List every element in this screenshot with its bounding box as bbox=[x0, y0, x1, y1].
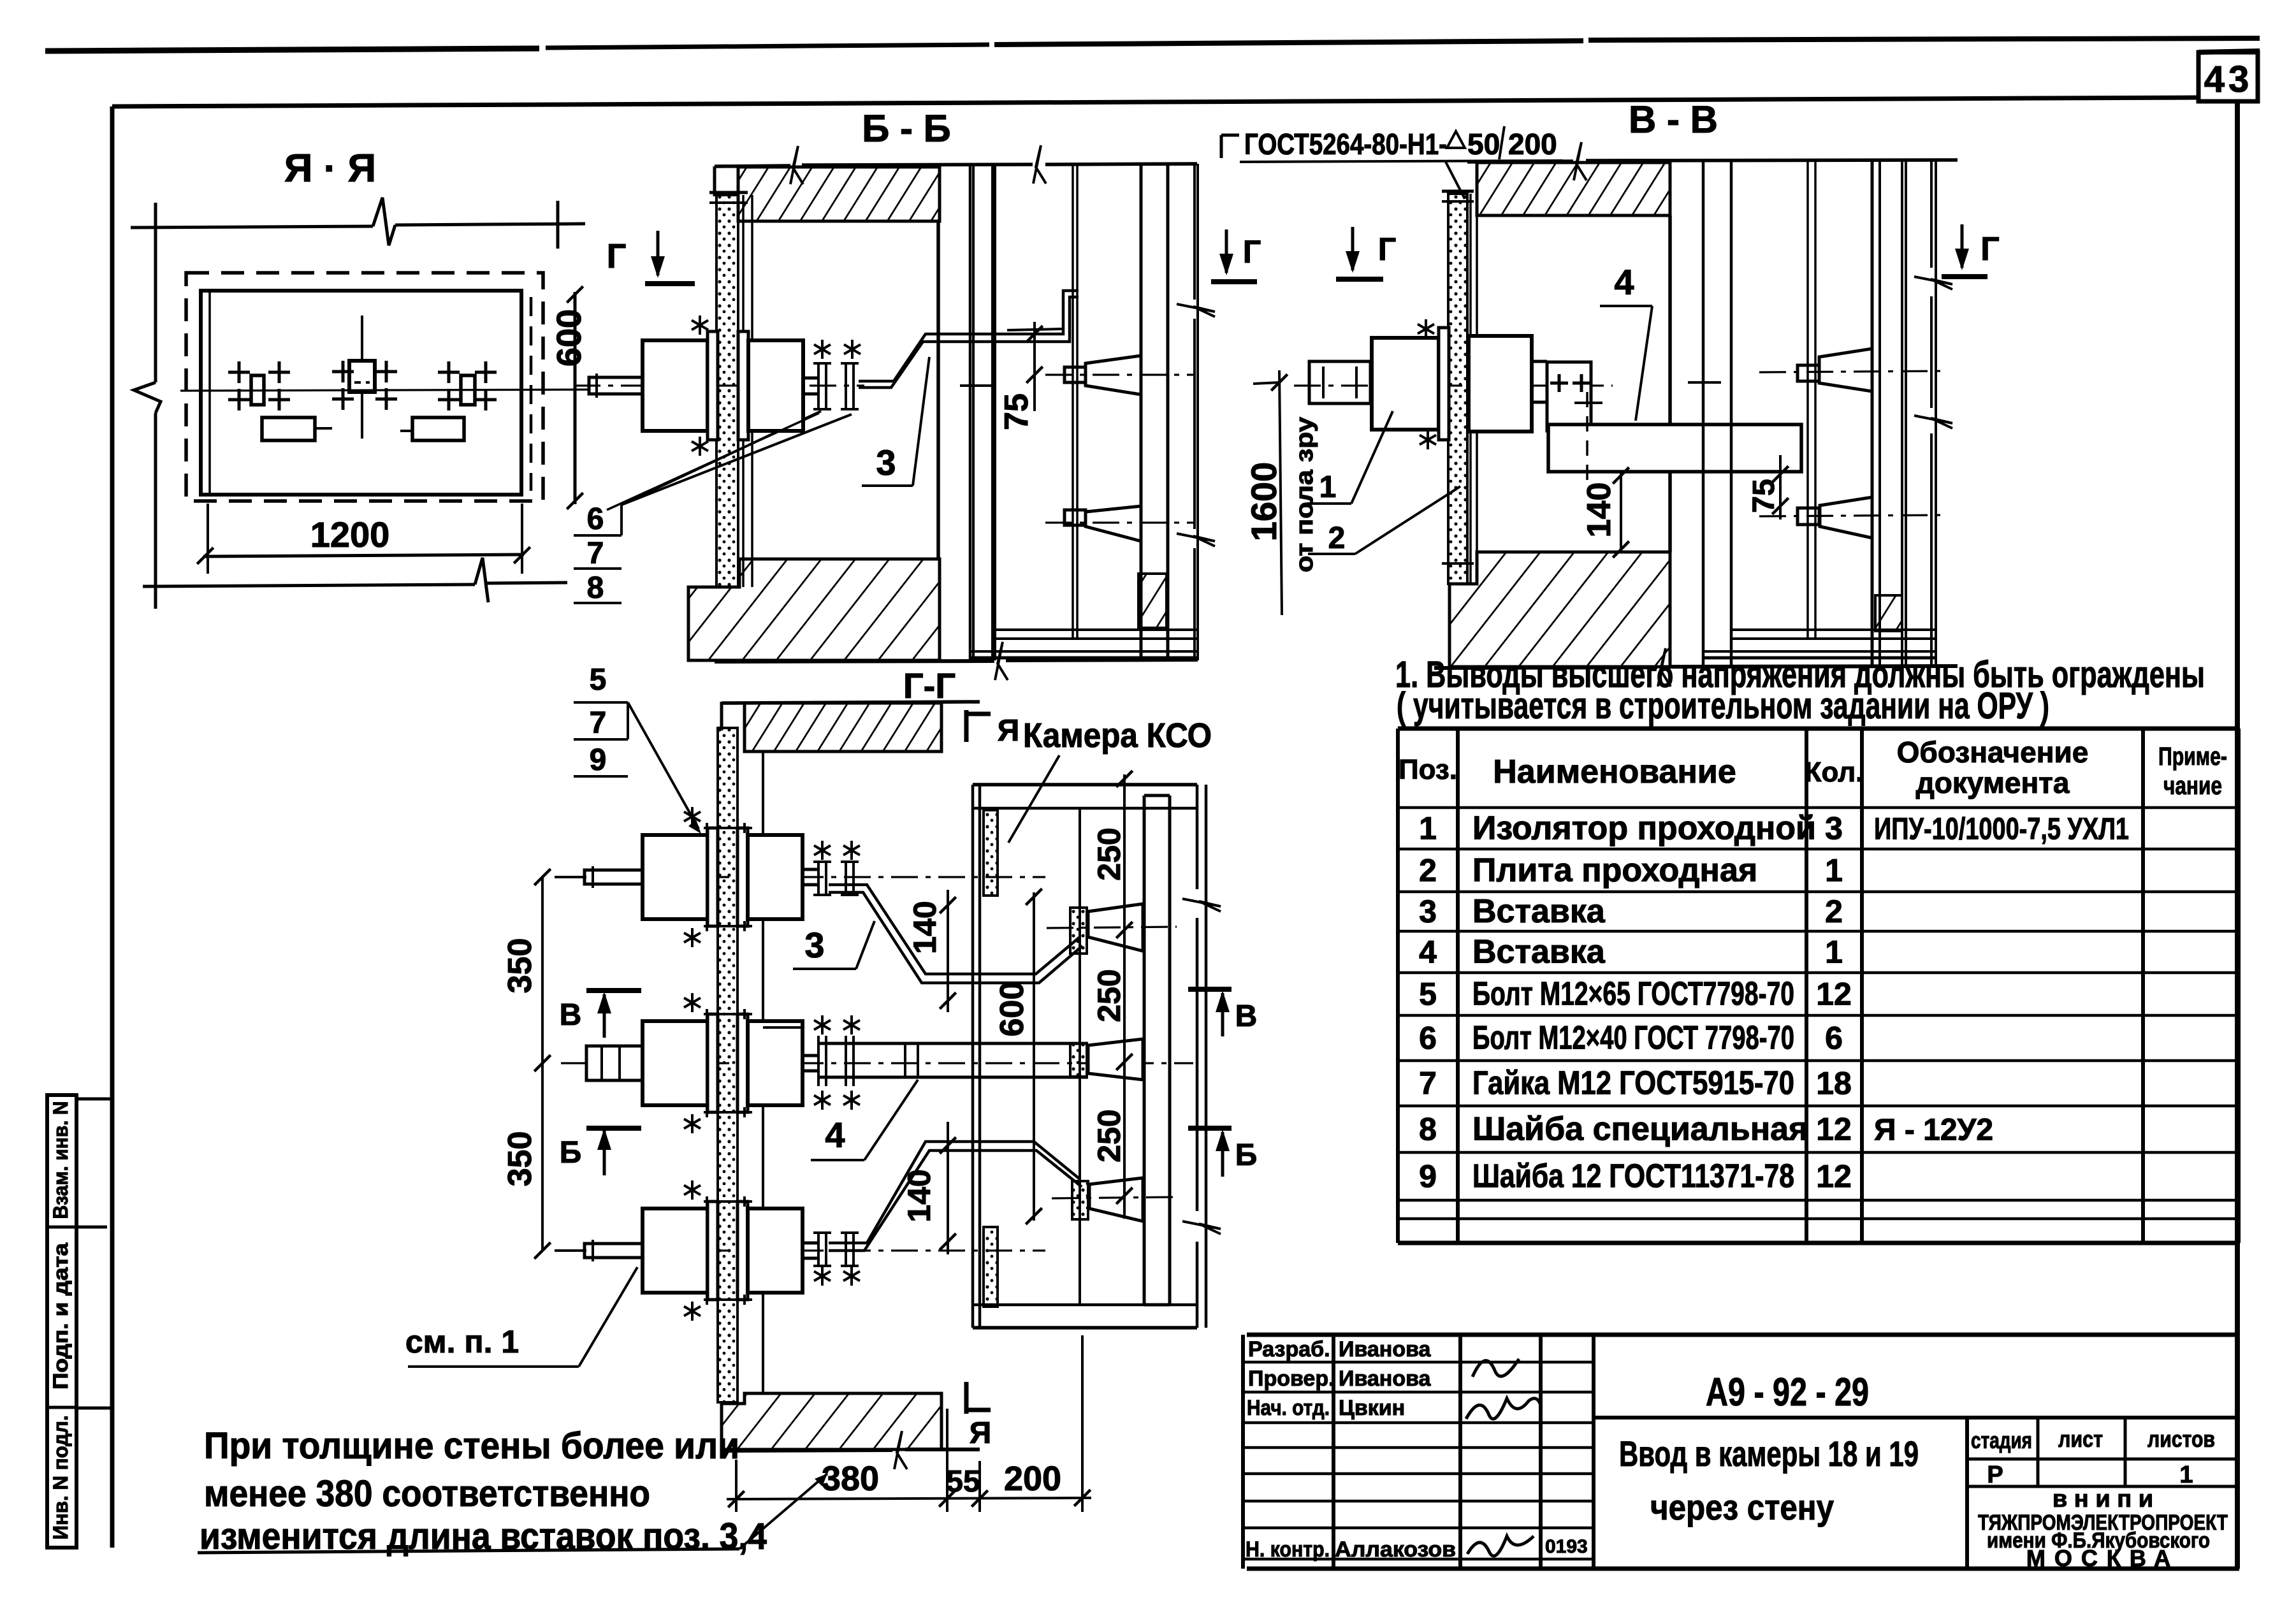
section label Г-Г bbox=[903, 665, 955, 706]
svg-text:ИПУ-10/1000-7,5 УХЛ1: ИПУ-10/1000-7,5 УХЛ1 bbox=[1874, 813, 2129, 846]
Б-Б label 3 with leader bbox=[862, 357, 929, 486]
svg-text:Я: Я bbox=[998, 714, 1020, 748]
svg-text:75: 75 bbox=[1747, 479, 1781, 512]
Б-Б room wall face bbox=[743, 195, 938, 587]
Г-Г dim 140 bottom bbox=[901, 1122, 956, 1254]
Г-Г top conductor item 3 bbox=[813, 841, 1082, 983]
svg-text:Болт М12×65 ГОСТ7798-70: Болт М12×65 ГОСТ7798-70 bbox=[1472, 976, 1794, 1013]
Г-Г marks В Б left bbox=[560, 991, 641, 1175]
Я-Я left angle bracket bbox=[228, 361, 332, 440]
svg-text:75: 75 bbox=[998, 393, 1035, 430]
В-В wall top hatched bbox=[1477, 163, 1670, 215]
svg-text:см. п. 1: см. п. 1 bbox=[405, 1324, 519, 1360]
Г-Г support insulator middle bbox=[1070, 1039, 1143, 1080]
svg-text:листов: листов bbox=[2147, 1426, 2215, 1452]
Г-Г dim 140 top bbox=[907, 890, 956, 1012]
В-В item labels 1 2 bbox=[1307, 411, 1460, 555]
Г-Г bushing bottom item 1 bbox=[585, 1180, 818, 1321]
Б-Б passing plate item 2 bbox=[709, 192, 748, 587]
svg-text:1: 1 bbox=[1825, 934, 1843, 970]
Я-Я dimension 1200 bbox=[143, 504, 567, 602]
Г-Г bottom dims 380 55 200 bbox=[727, 1335, 1091, 1512]
note line 2 bbox=[1397, 685, 2049, 727]
Г-Г support insulator bottom bbox=[1052, 1178, 1177, 1221]
svg-text:12: 12 bbox=[1816, 1112, 1852, 1147]
svg-text:Поз.: Поз. bbox=[1399, 754, 1457, 785]
section marks Г right pair bbox=[1211, 227, 1396, 282]
В-В support insulator bottom bbox=[1759, 497, 1948, 538]
svg-text:Б - Б: Б - Б bbox=[862, 107, 951, 150]
svg-text:Цвкин: Цвкин bbox=[1339, 1396, 1405, 1420]
svg-text:0193: 0193 bbox=[1545, 1536, 1588, 1557]
svg-text:3: 3 bbox=[804, 925, 824, 965]
section label В-В bbox=[1629, 98, 1718, 141]
Г-Г wall bottom hatched bbox=[722, 1393, 980, 1469]
svg-text:200: 200 bbox=[1508, 127, 1557, 161]
Я-Я overall top dimension bbox=[131, 198, 585, 250]
Б-Б support insulator bottom bbox=[1045, 506, 1193, 541]
svg-text:9: 9 bbox=[1419, 1159, 1437, 1194]
sheet top scan line bbox=[45, 38, 2260, 51]
svg-text:3: 3 bbox=[1419, 894, 1437, 929]
svg-text:4: 4 bbox=[825, 1115, 845, 1155]
svg-text:8: 8 bbox=[1419, 1112, 1437, 1147]
svg-text:12: 12 bbox=[1816, 976, 1852, 1012]
svg-text:4: 4 bbox=[1419, 934, 1437, 970]
svg-text:3: 3 bbox=[876, 442, 896, 483]
svg-text:от пола зру: от пола зру bbox=[1291, 417, 1318, 572]
svg-text:140: 140 bbox=[901, 1169, 937, 1222]
svg-text:документа: документа bbox=[1916, 766, 2070, 799]
Б-Б wall bottom hatched bbox=[688, 559, 940, 660]
parts table header bbox=[1399, 736, 2227, 800]
svg-text:Провер.: Провер. bbox=[1248, 1367, 1335, 1391]
svg-text:250: 250 bbox=[1091, 1109, 1127, 1162]
svg-text:8: 8 bbox=[587, 571, 604, 605]
Г-Г marks В Б right bbox=[1188, 989, 1257, 1177]
svg-text:В: В bbox=[560, 998, 582, 1032]
Г-Г label 4 bbox=[811, 1080, 918, 1160]
svg-text:4: 4 bbox=[1614, 262, 1634, 302]
svg-text:Б: Б bbox=[1235, 1138, 1258, 1172]
left margin strip bbox=[47, 1095, 112, 1548]
svg-text:Плита проходная: Плита проходная bbox=[1472, 852, 1757, 889]
Б-Б leader to bolt group bbox=[607, 413, 819, 510]
svg-text:При толщине стены более или: При толщине стены более или bbox=[204, 1425, 739, 1467]
svg-text:200: 200 bbox=[1004, 1460, 1061, 1498]
Я-Я overall left dimension bbox=[134, 228, 161, 609]
В-В cabinet floor bbox=[1703, 630, 1936, 658]
svg-text:1200: 1200 bbox=[310, 514, 390, 555]
svg-text:Шайба специальная: Шайба специальная bbox=[1472, 1111, 1808, 1148]
svg-text:МОСКВА: МОСКВА bbox=[2026, 1545, 2179, 1571]
svg-text:стадия: стадия bbox=[1971, 1427, 2032, 1453]
svg-text:250: 250 bbox=[1091, 827, 1127, 880]
В-В base angle hatched bbox=[1875, 595, 1902, 631]
svg-text:140: 140 bbox=[907, 901, 943, 954]
svg-text:2: 2 bbox=[1825, 894, 1843, 929]
svg-text:Нач. отд.: Нач. отд. bbox=[1247, 1396, 1330, 1420]
svg-text:( учитывается в строительном з: ( учитывается в строительном задании на … bbox=[1397, 685, 2049, 727]
title block stamp grid bbox=[1243, 1335, 2239, 1569]
svg-text:Ввод в камеры 18 и 19: Ввод в камеры 18 и 19 bbox=[1619, 1434, 1919, 1474]
Я-Я item refs 6 7 8 bbox=[574, 411, 852, 605]
svg-text:Вставка: Вставка bbox=[1472, 934, 1606, 971]
Г-Г passing plate item 2 bbox=[718, 728, 737, 1402]
left strip captions bbox=[49, 1101, 72, 1540]
svg-text:2: 2 bbox=[1328, 521, 1346, 555]
svg-text:Вставка: Вставка bbox=[1472, 893, 1606, 930]
В-В floor bottom line bbox=[1434, 648, 1958, 686]
В-В cabinet uprights bbox=[1688, 160, 1952, 667]
svg-text:менее 380 соответственно: менее 380 соответственно bbox=[204, 1473, 650, 1514]
svg-text:350: 350 bbox=[502, 938, 539, 994]
parts table grid bbox=[1398, 729, 2239, 1243]
svg-text:Изолятор проходной: Изолятор проходной bbox=[1472, 810, 1816, 847]
Г-Г support insulator top bbox=[1047, 904, 1177, 954]
В-В label 4 with leader bbox=[1600, 262, 1652, 421]
title name bbox=[1619, 1434, 1919, 1527]
svg-text:Н. контр.: Н. контр. bbox=[1246, 1537, 1330, 1562]
Г-Г marks Я bbox=[966, 710, 1019, 1450]
В-В ceiling line bbox=[1467, 142, 1958, 180]
svg-text:Гайка М12 ГОСТ5915-70: Гайка М12 ГОСТ5915-70 bbox=[1472, 1065, 1794, 1102]
svg-text:1: 1 bbox=[1419, 811, 1437, 846]
svg-text:В - В: В - В bbox=[1629, 98, 1718, 141]
svg-text:600: 600 bbox=[550, 309, 588, 367]
svg-text:140: 140 bbox=[1581, 483, 1618, 538]
Г-Г label см. п. 1 bbox=[405, 1267, 637, 1367]
svg-text:1600: 1600 bbox=[1244, 462, 1284, 542]
svg-text:Инв. N подл.: Инв. N подл. bbox=[49, 1416, 72, 1540]
Б-Б base angle hatched bbox=[1138, 574, 1166, 628]
svg-text:ГОСТ5264-80-Н1-: ГОСТ5264-80-Н1- bbox=[1244, 127, 1447, 161]
svg-text:Г: Г bbox=[1980, 231, 1999, 268]
В-В dimension 75 bbox=[1747, 455, 1789, 519]
В-В dimension 140 bbox=[1581, 467, 1629, 557]
В-В wall bottom hatched bbox=[1450, 552, 1670, 667]
svg-text:55: 55 bbox=[946, 1465, 980, 1499]
ГОСТ weld note bbox=[1221, 126, 1563, 199]
Б-Б wall top hatched bbox=[738, 167, 940, 221]
title right grid bbox=[1967, 1418, 2239, 1569]
Г-Г bushing middle item 1 bbox=[586, 993, 818, 1133]
svg-text:чание: чание bbox=[2163, 772, 2222, 800]
svg-text:1: 1 bbox=[2179, 1462, 2193, 1488]
Я-Я right angle bracket bbox=[400, 361, 497, 440]
svg-text:5: 5 bbox=[1419, 976, 1437, 1012]
svg-text:350: 350 bbox=[502, 1131, 539, 1187]
Г-Г item refs 5 7 9 bbox=[574, 663, 701, 834]
Г-Г bottom conductor item 3 bbox=[813, 1142, 1082, 1286]
note line 1 bbox=[1395, 654, 2205, 695]
svg-text:Г: Г bbox=[1243, 234, 1261, 270]
svg-text:Я: Я bbox=[970, 1416, 992, 1450]
Г-Г middle insert item 4 bbox=[763, 1015, 1088, 1110]
В-В passing plate item 2 bbox=[1442, 191, 1474, 584]
Б-Б bushing item 1 bbox=[574, 316, 864, 456]
Г-Г label Камера КСО bbox=[1008, 716, 1212, 843]
svg-text:6: 6 bbox=[1419, 1020, 1437, 1056]
svg-text:Подп. и дата: Подп. и дата bbox=[49, 1243, 72, 1390]
svg-text:1: 1 bbox=[1825, 853, 1843, 889]
svg-text:3: 3 bbox=[1825, 811, 1843, 846]
Б-Б support insulator top bbox=[1045, 356, 1193, 395]
svg-text:Р: Р bbox=[1987, 1462, 2003, 1488]
Г-Г plate edge line bbox=[762, 751, 764, 1393]
svg-text:Я - 12У2: Я - 12У2 bbox=[1874, 1114, 1993, 1147]
svg-text:через стену: через стену bbox=[1650, 1487, 1834, 1527]
svg-text:Г-Г: Г-Г bbox=[903, 665, 955, 706]
Г-Г dim 600 bbox=[994, 889, 1042, 1224]
page number box 43 bbox=[2198, 51, 2260, 101]
В-В bushing item 1 bbox=[1294, 319, 1613, 449]
svg-text:7: 7 bbox=[1419, 1066, 1437, 1101]
В-В room wall face bbox=[1471, 194, 1670, 584]
svg-text:Приме-: Приме- bbox=[2158, 743, 2227, 771]
stamp names bbox=[1246, 1337, 1456, 1562]
svg-text:250: 250 bbox=[1091, 969, 1127, 1022]
svg-text:6: 6 bbox=[587, 502, 604, 536]
svg-text:Наименование: Наименование bbox=[1493, 753, 1736, 790]
section mark Г left bbox=[607, 231, 695, 284]
Я-Я dimension 600 bbox=[550, 286, 588, 509]
svg-text:Взам. инв. N: Взам. инв. N bbox=[49, 1101, 72, 1219]
svg-text:В: В bbox=[1235, 999, 1258, 1033]
institute name bbox=[1978, 1486, 2228, 1571]
В-В support insulator top bbox=[1759, 349, 1948, 391]
svg-text:лист: лист bbox=[2058, 1426, 2103, 1452]
svg-text:7: 7 bbox=[587, 537, 604, 570]
Б-Б floor bottom line bbox=[715, 642, 1198, 680]
svg-text:А9 - 92 - 29: А9 - 92 - 29 bbox=[1706, 1370, 1869, 1414]
svg-text:6: 6 bbox=[1825, 1020, 1843, 1056]
svg-text:2: 2 bbox=[1419, 853, 1437, 889]
Г-Г cabinet doors bbox=[984, 810, 998, 1307]
svg-text:9: 9 bbox=[590, 743, 607, 777]
Б-Б cabinet uprights bbox=[960, 164, 1215, 660]
svg-text:600: 600 bbox=[994, 982, 1031, 1037]
section label Я-Я bbox=[284, 147, 376, 191]
svg-text:18: 18 bbox=[1816, 1066, 1852, 1101]
svg-text:Разраб.: Разраб. bbox=[1248, 1337, 1330, 1361]
В-В mark Г bbox=[1942, 224, 2000, 277]
Г-Г bushing top item 1 bbox=[585, 807, 818, 947]
В-В insert item 4 bar bbox=[1548, 392, 1801, 481]
svg-text:Иванова: Иванова bbox=[1339, 1337, 1432, 1361]
Я-Я opening rect bbox=[201, 291, 521, 495]
svg-text:Я · Я: Я · Я bbox=[284, 147, 376, 191]
title stage texts bbox=[1971, 1426, 2215, 1488]
svg-text:Болт М12×40 ГОСТ 7798-70: Болт М12×40 ГОСТ 7798-70 bbox=[1472, 1020, 1794, 1057]
svg-text:Б: Б bbox=[560, 1136, 582, 1170]
Б-Б conductor item 3 bbox=[859, 291, 1079, 388]
Г-Г cabinet KCO bbox=[973, 785, 1221, 1328]
svg-text:Шайба 12 ГОСТ11371-78: Шайба 12 ГОСТ11371-78 bbox=[1472, 1158, 1794, 1195]
svg-text:Кол.: Кол. bbox=[1805, 757, 1864, 788]
svg-text:50: 50 bbox=[1467, 127, 1500, 161]
Г-Г label 3 bbox=[793, 921, 875, 969]
Я-Я plate dashed outline bbox=[186, 273, 543, 501]
section label Б-Б bbox=[862, 107, 951, 150]
parts table rows bbox=[1419, 810, 2129, 1195]
Г-Г centre lines bbox=[561, 876, 1045, 878]
svg-text:в н и п и: в н и п и bbox=[2053, 1486, 2153, 1513]
Б-Б cabinet floor bbox=[970, 630, 1198, 658]
В-В dimension 1600 от пола зру bbox=[1244, 370, 1318, 615]
svg-text:Аллакозов: Аллакозов bbox=[1335, 1537, 1456, 1562]
Г-Г left dims 350 bbox=[502, 869, 586, 1258]
Г-Г wall top hatched bbox=[722, 702, 980, 751]
Б-Б dimension 75 bbox=[998, 322, 1063, 430]
svg-text:Обозначение: Обозначение bbox=[1897, 736, 2089, 769]
svg-text:Иванова: Иванова bbox=[1339, 1367, 1432, 1391]
svg-text:5: 5 bbox=[590, 663, 607, 697]
svg-text:1: 1 bbox=[1319, 470, 1337, 504]
title code A9-92-29 bbox=[1594, 1370, 2239, 1418]
Я-Я centre square pad bbox=[332, 316, 397, 439]
svg-text:7: 7 bbox=[590, 706, 607, 740]
svg-text:Г: Г bbox=[1378, 231, 1396, 267]
stamp signatures bbox=[1466, 1359, 1588, 1557]
svg-text:43: 43 bbox=[2204, 59, 2253, 100]
svg-text:380: 380 bbox=[822, 1460, 879, 1498]
Г-Г dims 250 bbox=[1091, 771, 1133, 1219]
svg-text:Г: Г bbox=[607, 237, 627, 275]
svg-text:12: 12 bbox=[1816, 1159, 1852, 1194]
Б-Б ceiling line bbox=[715, 145, 1197, 196]
svg-text:Камера КСО: Камера КСО bbox=[1023, 716, 1212, 755]
bottom note text bbox=[198, 1425, 827, 1557]
Я-Я centre line bbox=[180, 389, 623, 391]
